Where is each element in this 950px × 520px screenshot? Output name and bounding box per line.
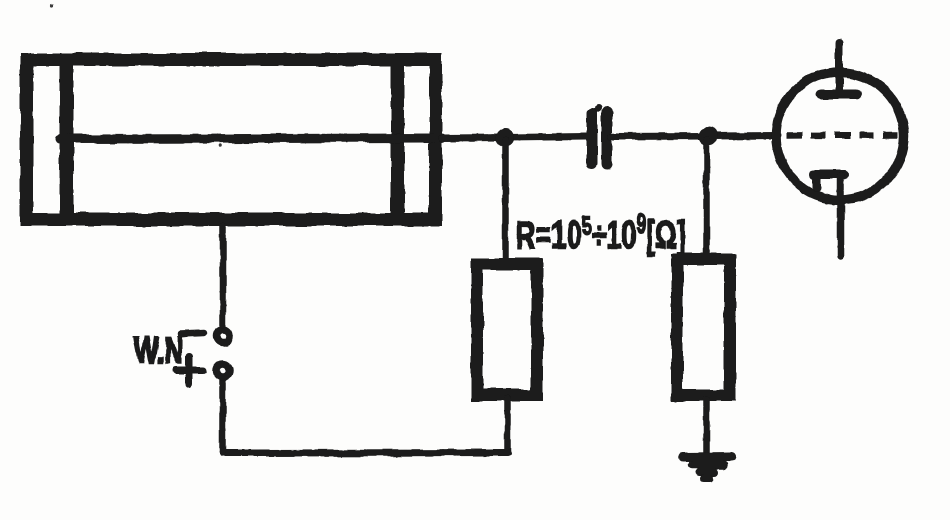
ink speck top left: [50, 4, 53, 7]
wire: bottom rail: [223, 449, 508, 457]
resistor R (grid leak resistor): [477, 264, 537, 395]
terminal: + supply terminal: [217, 364, 230, 377]
ink speck inside detector: [218, 144, 222, 148]
svg-text:R=105÷109[Ω]: R=105÷109[Ω]: [516, 208, 686, 257]
capacitor C right plate: [602, 112, 613, 164]
wire: capacitor to tube grid: [612, 136, 778, 137]
tube grid (dashed): [787, 132, 900, 139]
vacuum tube U1 envelope: [776, 72, 904, 200]
tube anode plate: [821, 90, 857, 100]
tube cathode: [817, 175, 842, 189]
tube cathode bar: [814, 170, 844, 179]
tube cathode lead: [837, 176, 845, 257]
resistor (cathode/load resistor, unlabeled): [677, 259, 730, 395]
wire: detector cathode down to - terminal: [220, 226, 227, 325]
node: junction of capacitor and tube-side resistor: [699, 127, 718, 146]
node: junction of detector output and grid resistor: [496, 128, 515, 147]
wire: junction down to resistor R (left): [502, 140, 509, 260]
terminal: - supply terminal: [217, 330, 230, 343]
value label R=10^5 - 10^9 ohm: [516, 208, 686, 257]
wire: detector output to capacitor: [442, 137, 587, 139]
detector left end electrode: [60, 59, 74, 220]
wire: bottom rail up to + terminal: [219, 381, 226, 453]
label W.N. (high voltage supply): [134, 330, 183, 372]
minus sign at - terminal: [181, 333, 204, 334]
wire: resistor R to bottom rail: [504, 399, 511, 453]
plus sign at + terminal: [176, 357, 203, 384]
detector right end electrode: [391, 59, 405, 220]
tube anode lead: [835, 43, 843, 94]
svg-text:W.N: W.N: [134, 330, 183, 372]
ground symbol: [683, 457, 732, 479]
detector centre wire electrode: [60, 138, 442, 139]
wire: resistor to ground: [703, 399, 710, 454]
capacitor C left plate: [587, 113, 598, 163]
ink speck above capacitor: [595, 105, 602, 112]
wire: junction down to tube-side resistor: [703, 139, 710, 255]
detector chamber outer body: [27, 60, 436, 220]
